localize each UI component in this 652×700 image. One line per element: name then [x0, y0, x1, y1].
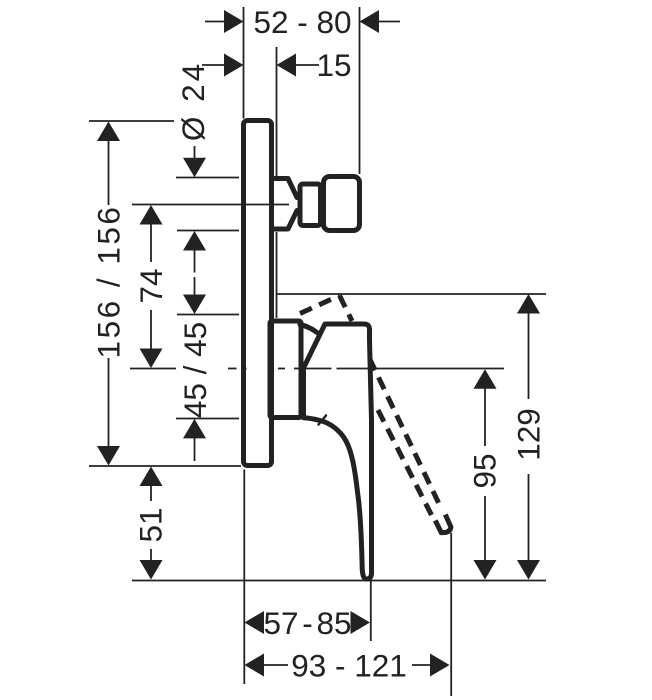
svg-text:57 - 85: 57 - 85: [263, 605, 351, 641]
cartridge sleeve: [270, 321, 301, 418]
svg-text:Ø 24: Ø 24: [175, 61, 211, 141]
wire: extension line top of plate (156/156 top): [89, 120, 174, 122]
dashed lever front edge upper: [340, 296, 353, 322]
dimension Ø24 line segments: [194, 146, 196, 159]
arrow 52-80 right: [360, 10, 380, 33]
svg-text:74: 74: [133, 268, 169, 303]
arrow 156/156 top: [97, 122, 120, 142]
arrowheads: [97, 10, 540, 677]
arrow 52-80 left: [224, 10, 244, 33]
arrow 95 top: [474, 369, 497, 389]
hub shoulder arc: [300, 325, 317, 333]
product outline: [244, 121, 372, 580]
spout connector ring: [300, 184, 321, 226]
arrow 15 right: [277, 54, 297, 77]
arrow 95 bottom: [474, 560, 497, 580]
svg-text:156 / 156: 156 / 156: [91, 205, 127, 359]
arrow 74 top: [140, 205, 163, 225]
wire: 45/45 bottom extension: [176, 418, 239, 420]
wire: extension line x=276.5 lower segment: [276, 232, 278, 318]
arrow Ø24 top: [183, 158, 206, 178]
wire: 129 top extension: [277, 293, 546, 295]
svg-text:51: 51: [133, 507, 169, 542]
dimension 51 line segments: [150, 486, 152, 501]
wire: Ø24 top extension: [176, 177, 239, 179]
wire: extension line plate-left vertical top: [243, 7, 245, 119]
wire: bottom reference line (lever tip): [132, 580, 546, 582]
dimension 93-121 tails: [262, 664, 288, 666]
wire: 45/45 top extension: [177, 314, 239, 316]
dashed raised lever: [300, 296, 451, 533]
arrow 93-121 right: [430, 654, 450, 677]
arrow 93-121 left: [245, 654, 265, 677]
svg-text:52 - 80: 52 - 80: [253, 4, 351, 40]
dimension 129 line segments: [528, 313, 530, 399]
arrow 45/45 bottom: [183, 419, 206, 439]
wire: cartridge centerline / 74 bottom / 95 top: [130, 368, 176, 370]
wire: extension line nut-right vertical top: [359, 7, 361, 174]
svg-text:93 - 121: 93 - 121: [291, 648, 407, 684]
arrow 45/45 top: [183, 295, 206, 315]
dimension 95 line segments: [484, 389, 486, 447]
arrow 51 top: [140, 467, 163, 487]
dimension 156/156 line segments: [108, 141, 110, 205]
arrow 57-85 left: [245, 611, 265, 634]
dashed lever front edge main: [370, 359, 442, 510]
arrow 74 bottom: [140, 349, 163, 369]
parting tick on lever curve: [319, 416, 327, 425]
dimension 74 line segments: [150, 225, 152, 263]
wire: extension line x=276.5 upper segment: [276, 47, 278, 176]
spout connector nut: [324, 177, 360, 231]
arrow 129 top: [517, 294, 540, 314]
arrow 57-85 right: [351, 611, 371, 634]
arrow 129 bottom: [517, 560, 540, 580]
svg-text:129: 129: [511, 408, 547, 461]
arrow 15 left: [224, 54, 244, 77]
dimension 15 tails: [202, 64, 225, 66]
svg-text:45 / 45: 45 / 45: [177, 322, 213, 418]
dashed lever back edge: [378, 410, 432, 515]
svg-text:15: 15: [316, 47, 351, 83]
arrow 156/156 bottom: [97, 446, 120, 466]
svg-text:95: 95: [467, 453, 503, 488]
escutcheon plate: [244, 121, 272, 466]
dimension 52-80 tails: [205, 21, 225, 23]
wire: extension below plate left: [243, 470, 245, 685]
dashed lever end cap: [435, 515, 451, 533]
spout connector cone: [272, 179, 297, 230]
wire: plate bottom extension (156/156 bottom): [89, 465, 241, 467]
wire: extension below solid lever tip: [370, 581, 372, 641]
lever hub and handle solid: [304, 324, 372, 579]
dimension texts: [91, 4, 547, 684]
arrow Ø24 bottom: [183, 231, 206, 251]
dimension 45/45 line segments: [194, 277, 196, 295]
wire: Ø24 bottom extension: [177, 230, 239, 232]
dashed lever top edge: [300, 296, 340, 314]
arrow 51 bottom: [140, 560, 163, 580]
wire: connector centerline / 74 top: [132, 204, 289, 206]
wire: extension below dashed lever tip: [450, 533, 452, 696]
